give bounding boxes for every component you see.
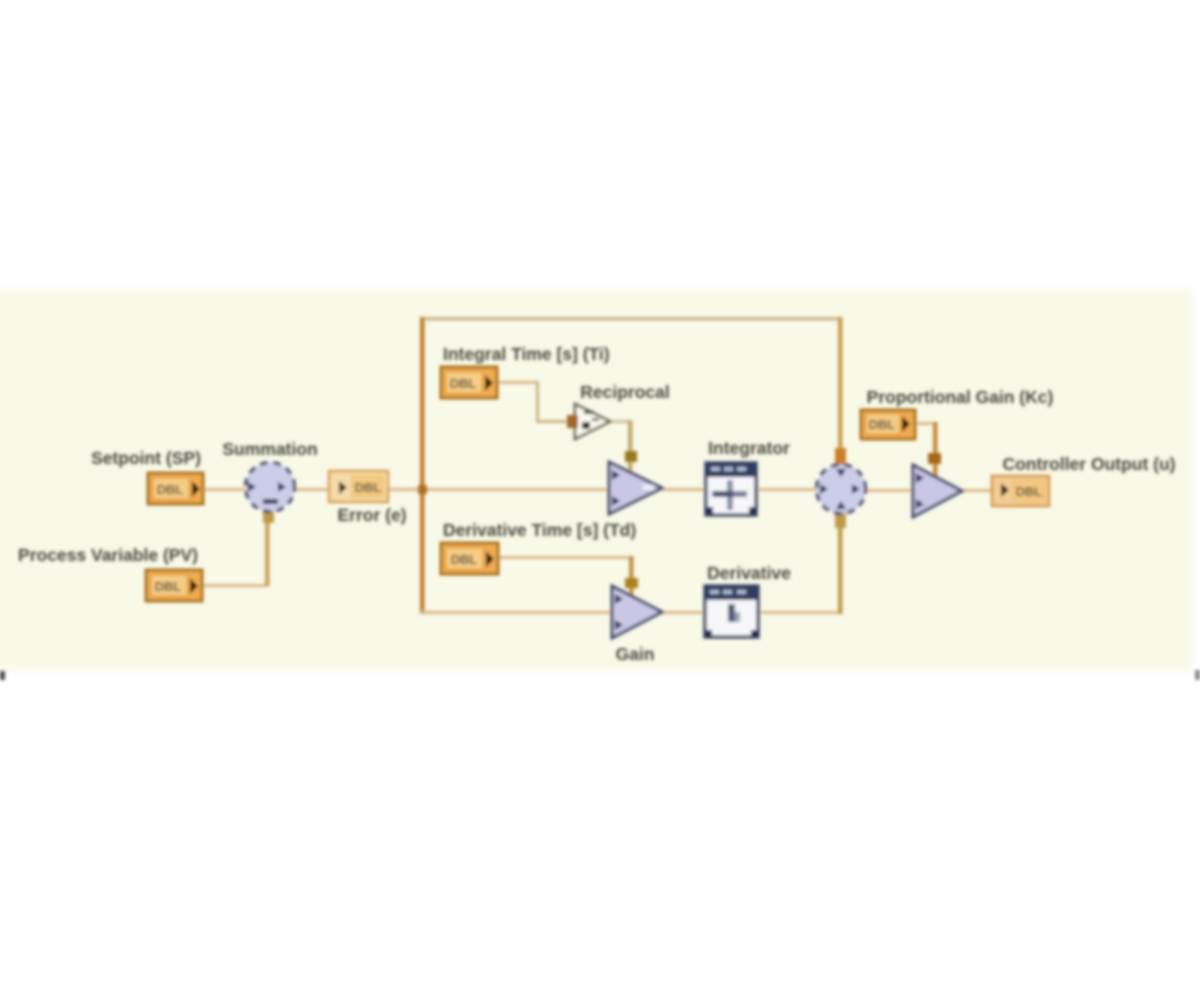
wire: Td vertical down to Gain [629,556,634,597]
control terminal: Process Variable (PV) DBL [146,570,202,601]
wire: Td terminal right [498,556,634,559]
wire: Error indicator to multiply M1 (main error line) [386,488,614,491]
svg-text:Reciprocal: Reciprocal [580,382,669,402]
wire: top rail horizontal [421,317,842,321]
svg-text:Controller Output (u): Controller Output (u) [1002,454,1175,474]
wire: PV terminal horizontal [202,584,268,587]
svg-text:Process Variable (PV): Process Variable (PV) [18,545,198,565]
wire: M1 to Integrator [659,488,709,491]
wire: summation to Error indicator [293,488,333,491]
control terminal: Derivative Time (Td) DBL [441,543,498,574]
svg-text:Derivative Time [s] (Td): Derivative Time [s] (Td) [443,520,636,540]
integrator block [706,463,756,515]
wire: Integrator to summation S2 [755,488,819,491]
wire: Ti vertical down [536,381,539,422]
edge artifact left [0,671,5,680]
wire: Kc terminal right [914,422,938,425]
svg-text:Gain: Gain [616,644,655,664]
wire: summation S1 bottom stub [263,509,274,523]
multiply node M1 [609,462,662,514]
svg-text:Setpoint (SP): Setpoint (SP) [91,448,201,468]
wire: Ti terminal right [497,381,539,384]
svg-text:Summation: Summation [222,439,317,459]
multiply node M2 (Gain) [612,586,662,638]
derivative block [705,586,758,637]
wire: S2 to multiply M3 [864,489,916,492]
svg-text:DBL: DBL [1016,484,1043,499]
summation node S1 [246,463,295,512]
summation node S2 [817,465,866,514]
wire: S2 top orange stub [835,448,846,465]
wire: M3 to Controller Output indicator [959,489,994,492]
wire: Ti horizontal into Reciprocal [536,420,574,423]
svg-text:Proportional Gain (Kc): Proportional Gain (Kc) [867,387,1054,407]
nodes [146,367,1049,638]
control terminal: Setpoint (SP) DBL [148,473,203,504]
indicator terminal: Error (e) [329,471,388,502]
wire: Kc vertical down into M3 [933,422,938,478]
svg-text:DBL: DBL [869,417,896,432]
wire: lower rail horizontal to Gain [421,611,614,614]
wire: Derivative output right [758,611,843,614]
junction dot: Td wire at Gain top [625,578,638,588]
wire: S2 bottom stub [835,513,846,528]
svg-text:DBL: DBL [450,376,477,391]
wire: PV vertical up to summation bottom [265,513,270,586]
junction dot: Kc wire at M3 top [928,453,941,464]
junction dot: main wire crossing left rail [418,485,427,494]
svg-text:Error (e): Error (e) [337,505,406,525]
svg-text:DBL: DBL [355,480,382,495]
indicator terminal: Controller Output (u) [992,476,1049,506]
svg-text:DBL: DBL [451,552,478,567]
canvas background [0,289,1193,671]
control terminal: Proportional Gain (Kc) DBL [861,410,915,439]
wire: Reciprocal output right [609,420,632,423]
svg-text:DBL: DBL [157,482,184,497]
svg-text:DBL: DBL [155,579,182,594]
junction dot: Ti wire at reciprocal input [567,415,578,428]
svg-text:Integrator: Integrator [708,438,790,458]
wire: derivative vertical up to S2 bottom [838,516,843,614]
edge artifact right [1195,670,1200,680]
junction dot: reciprocal wire at M1 top [625,451,637,462]
wire: left rail vertical [420,317,425,614]
svg-text:Integral Time [s] (Ti): Integral Time [s] (Ti) [443,344,610,364]
reciprocal node [575,404,610,439]
wire: SP terminal to summation [201,488,247,491]
wire: right rail vertical down to S2 top [838,317,843,452]
control terminal: Integral Time (Ti) DBL [441,367,497,398]
multiply node M3 [913,465,962,517]
svg-text:Derivative: Derivative [707,563,791,583]
wires [201,317,994,614]
wire: Gain to Derivative [659,611,705,614]
wire: Reciprocal output down into M1 [628,420,633,474]
